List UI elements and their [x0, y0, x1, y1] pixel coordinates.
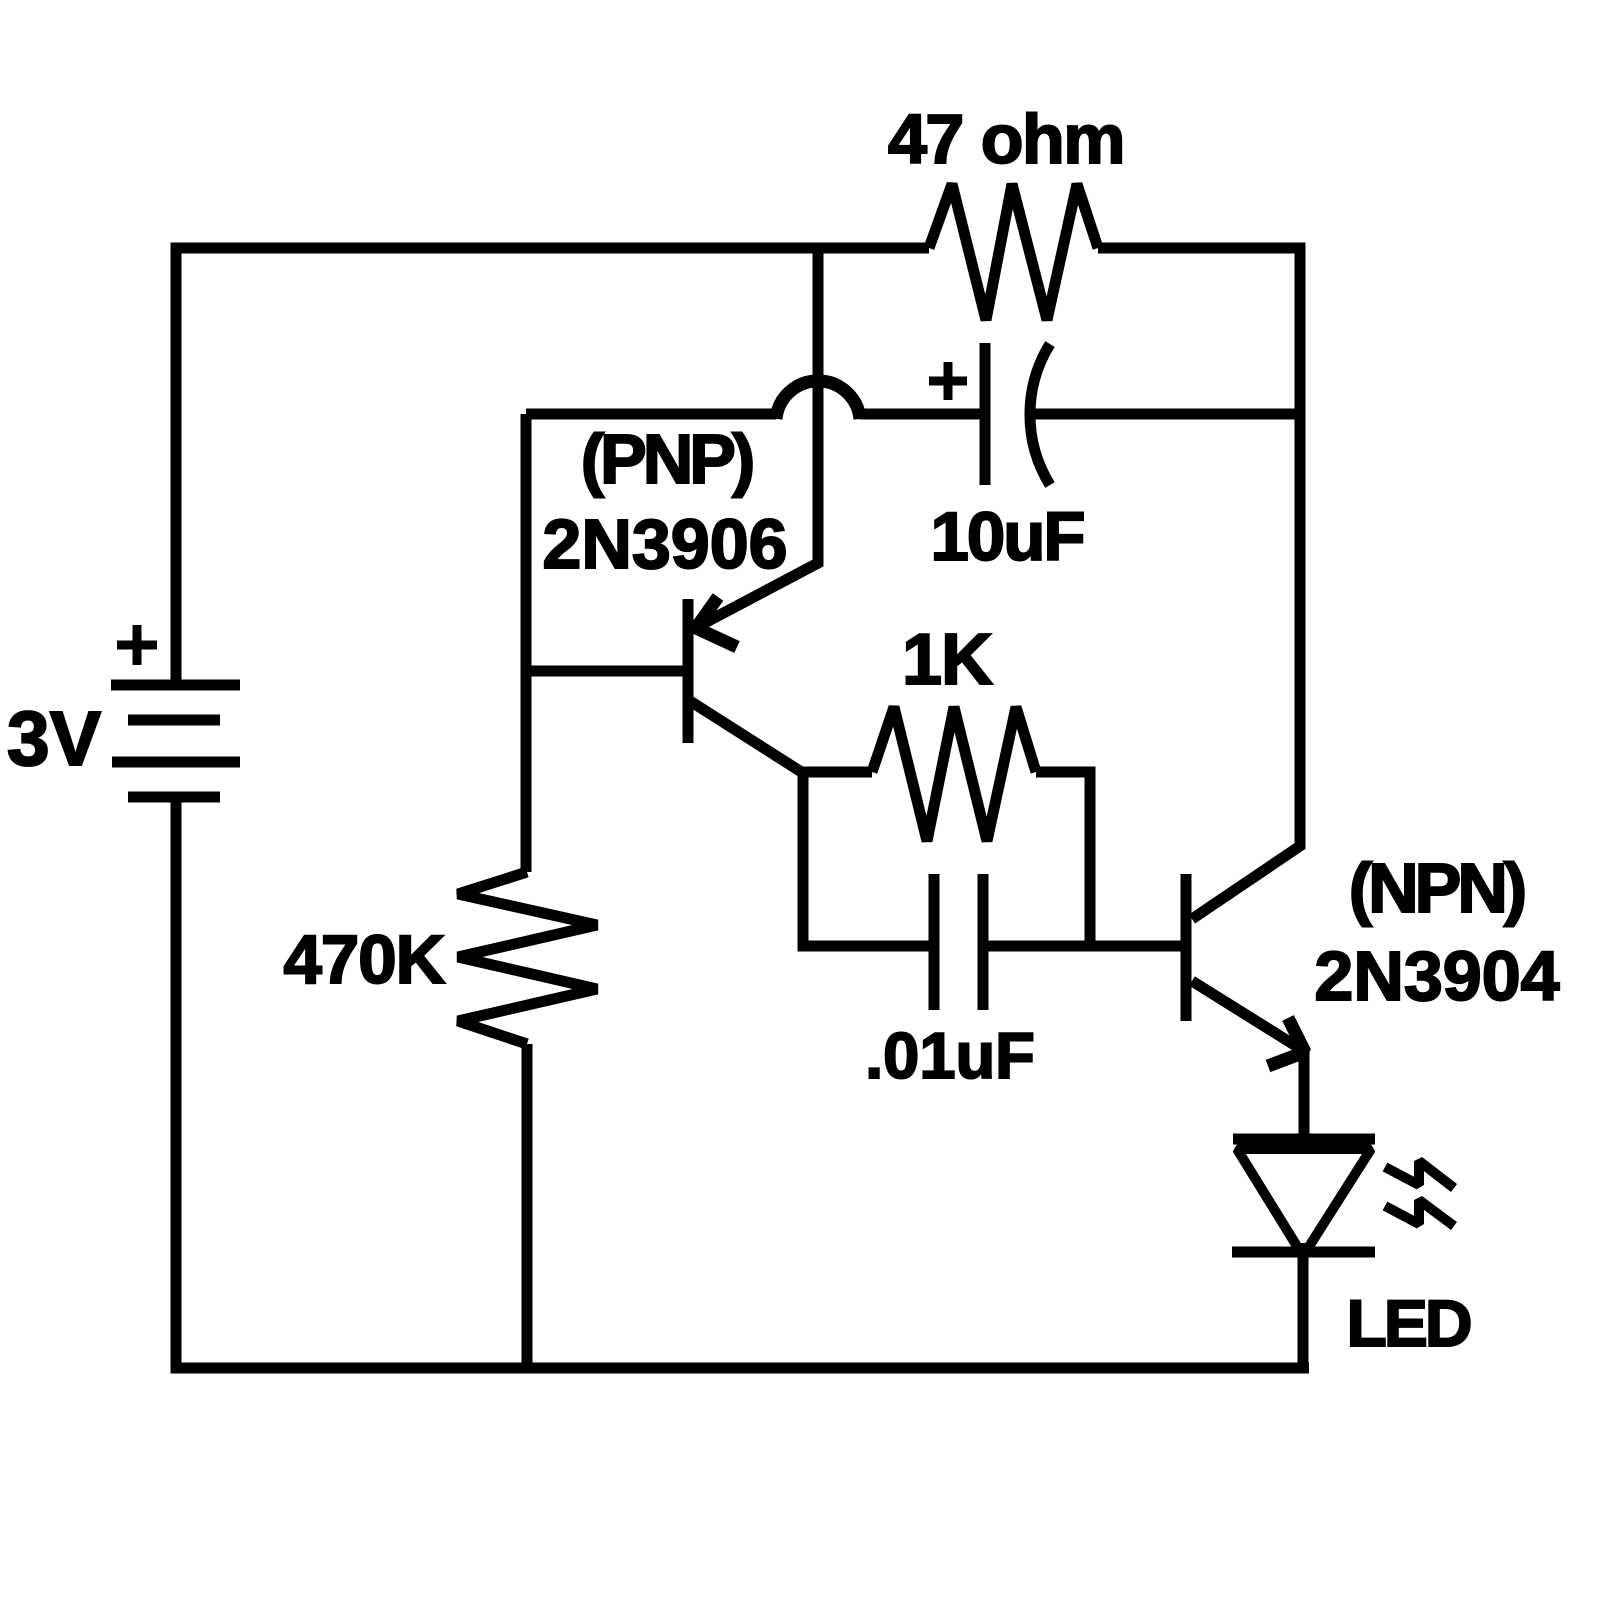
battery B1 plate long	[112, 757, 240, 768]
resistor R1 47 ohm zigzag	[929, 184, 1098, 320]
transistor Q1 PNP emitter arrow	[696, 597, 737, 647]
svg-text:(NPN): (NPN)	[1349, 849, 1524, 927]
svg-text:470K: 470K	[284, 921, 446, 998]
capacitor C2 .01uF left plate	[929, 874, 940, 1010]
wire: PNP base wire	[526, 666, 684, 677]
LED light ray bolt upper	[1385, 1161, 1454, 1188]
battery B1 3V plate long top	[111, 680, 240, 691]
svg-text:2N3904: 2N3904	[1314, 937, 1559, 1015]
capacitor C1 10uF straight plate	[980, 343, 991, 485]
wire: top rail right and right rail down to NPN collector corner	[1098, 248, 1300, 919]
svg-text:10uF: 10uF	[930, 498, 1083, 575]
wire: battery positive up and top rail left	[176, 248, 929, 685]
svg-text:.01uF: .01uF	[865, 1019, 1035, 1092]
battery B1 plate short bottom	[128, 792, 220, 803]
wire: 10uF line with hop over emitter feed	[526, 409, 776, 420]
svg-text:1K: 1K	[902, 620, 993, 700]
wire: 470K bottom to bottom rail	[522, 1044, 533, 1368]
wire: 10uF right to rail	[1032, 409, 1300, 420]
transistor Q2 NPN emitter	[1192, 981, 1304, 1139]
LED D1 triangle	[1237, 1149, 1371, 1256]
wire: LED cathode down to bottom rail	[1298, 1243, 1309, 1368]
transistor Q2 NPN base bar	[1181, 874, 1192, 1021]
LED light ray bolt lower	[1385, 1200, 1454, 1226]
transistor Q1 PNP base bar	[683, 599, 694, 743]
svg-text:2N3906: 2N3906	[542, 505, 787, 583]
wire: emitter feed from top rail down to PNP emitter	[697, 248, 818, 627]
wire: 1K right side down	[1036, 772, 1090, 946]
battery plus sign	[117, 641, 157, 650]
svg-text:47 ohm: 47 ohm	[888, 100, 1124, 178]
svg-text:LED: LED	[1347, 1286, 1470, 1360]
LED D1 cathode bar	[1232, 1247, 1375, 1258]
resistor R3 470K zigzag	[458, 872, 597, 1044]
capacitor C2 .01uF right plate	[978, 874, 989, 1010]
battery B1 plate short	[128, 715, 220, 726]
transistor Q1 PNP collector	[690, 701, 803, 773]
svg-text:(PNP): (PNP)	[581, 420, 752, 498]
transistor Q2 NPN emitter arrow	[1268, 1018, 1305, 1066]
capacitor C1 10uF curved plate	[1030, 344, 1050, 485]
wire: node A down from PNP collector and to .01uF	[803, 767, 934, 946]
svg-text:3V: 3V	[7, 696, 101, 782]
wire: node A to 1K left	[803, 767, 872, 778]
resistor R2 1K zigzag	[872, 707, 1036, 841]
capacitor C1 plus sign	[929, 377, 967, 386]
wire: left branch vertical from 10uF corner to 470K	[521, 414, 532, 872]
wire: battery negative down and bottom rail	[176, 797, 1309, 1368]
wire: .01uF to NPN base	[983, 941, 1182, 952]
LED D1 anode bar	[1233, 1134, 1375, 1145]
